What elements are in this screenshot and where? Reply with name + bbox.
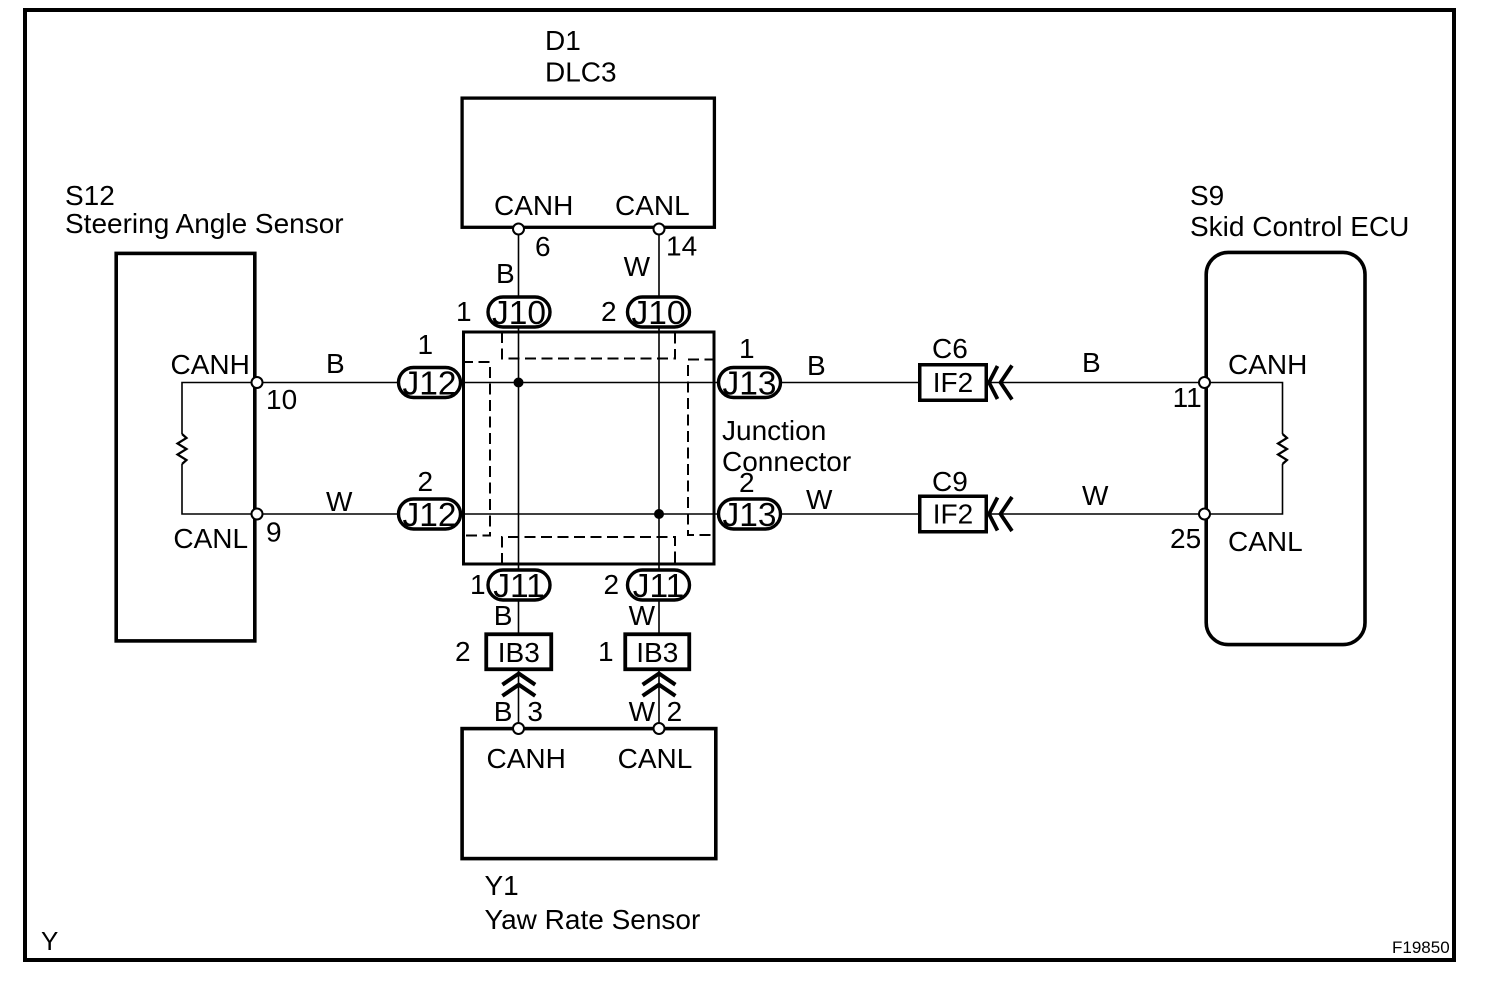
connector IB3 pin 1 (right) [598,634,689,669]
connector C9 IF2 [920,466,987,532]
wire CANH (B): S12 pin 10 to S9 pin 11 [257,382,1205,384]
node pin 2 (Y1 CANL) [618,696,693,774]
svg-text:CANL: CANL [618,743,693,774]
svg-text:25: 25 [1170,523,1201,554]
svg-text:Steering Angle Sensor: Steering Angle Sensor [65,208,344,239]
svg-text:2: 2 [455,636,471,667]
svg-text:IB3: IB3 [636,637,678,668]
connector J13 pin 1 [719,333,781,402]
svg-text:J13: J13 [722,497,776,534]
svg-text:CANL: CANL [1228,526,1303,557]
svg-text:IB3: IB3 [498,637,540,668]
svg-text:B: B [494,600,513,631]
component S12 Steering Angle Sensor [65,180,344,641]
svg-text:1: 1 [456,296,472,327]
connector mating chevrons (IB3 right) [643,674,676,696]
svg-text:B: B [1082,347,1101,378]
svg-text:1: 1 [418,329,434,360]
connector mating chevrons (C6) [989,366,1012,400]
resistor (S12 internal termination) [178,383,258,515]
svg-text:F19850: F19850 [1392,938,1450,957]
connector IB3 pin 2 (left) [455,634,551,669]
svg-text:J10: J10 [492,295,546,332]
svg-text:1: 1 [739,333,755,364]
svg-text:14: 14 [666,231,697,262]
svg-text:J12: J12 [402,365,456,402]
svg-text:3: 3 [527,696,543,727]
svg-text:Junction: Junction [722,415,826,446]
svg-text:2: 2 [667,696,683,727]
svg-text:2: 2 [601,296,617,327]
svg-text:Y1: Y1 [485,870,519,901]
node pin 3 (Y1 CANH) [487,696,566,774]
node pin 25 (S9 CANL) [1170,509,1303,558]
connector mating chevrons (C9) [989,497,1012,531]
wire B: D1 CANH pin 6 down to Y1 pin 3 [518,229,520,729]
svg-text:CANH: CANH [487,743,566,774]
connector J10 pin 2 [601,295,690,332]
connector J12 pin 2 [399,466,461,534]
svg-text:W: W [1082,480,1109,511]
svg-text:2: 2 [604,569,620,600]
svg-text:CANL: CANL [615,190,690,221]
svg-text:W: W [629,696,656,727]
svg-text:J13: J13 [722,365,776,402]
svg-text:B: B [326,348,345,379]
node pin 11 (S9 CANH) [1173,349,1308,413]
svg-text:IF2: IF2 [933,367,973,398]
svg-text:2: 2 [739,467,755,498]
svg-text:S9: S9 [1190,180,1224,211]
resistor (S9 internal termination) [1205,383,1288,515]
svg-text:Skid Control ECU: Skid Control ECU [1190,211,1409,242]
svg-text:Yaw Rate Sensor: Yaw Rate Sensor [485,904,701,935]
svg-text:9: 9 [266,517,282,548]
component Y1 Yaw Rate Sensor [462,729,716,935]
wire CANL (W): S12 pin 9 to S9 pin 25 [257,513,1205,515]
svg-text:W: W [806,484,833,515]
node pin 6 (D1 CANH) [494,190,573,262]
component D1 DLC3 [462,25,714,227]
svg-text:CANH: CANH [171,349,250,380]
connector J11 pin 1 [470,568,550,605]
svg-text:CANH: CANH [1228,349,1307,380]
svg-text:W: W [629,600,656,631]
svg-text:S12: S12 [65,180,115,211]
connector J11 pin 2 [604,568,690,605]
svg-text:CANL: CANL [173,523,248,554]
svg-text:B: B [494,696,513,727]
svg-text:6: 6 [535,231,551,262]
svg-text:W: W [624,251,651,282]
svg-text:J10: J10 [631,295,685,332]
svg-text:2: 2 [418,466,434,497]
svg-text:10: 10 [266,384,297,415]
connector C6 IF2 [920,333,987,400]
svg-text:CANH: CANH [494,190,573,221]
svg-text:IF2: IF2 [933,499,973,530]
node pin 14 (D1 CANL) [615,190,697,262]
svg-text:1: 1 [598,636,614,667]
svg-text:Y: Y [41,926,58,956]
label Junction Connector [722,415,851,477]
wire W: D1 CANL pin 14 down to Y1 pin 2 [658,229,660,729]
junction dot (W/CANL) [654,509,664,519]
svg-text:11: 11 [1173,382,1202,413]
node pin 9 (S12 CANL) [173,509,281,555]
svg-text:1: 1 [470,569,486,600]
connector mating chevrons (IB3 left) [502,674,535,696]
svg-text:DLC3: DLC3 [545,57,617,88]
connector J12 pin 1 [399,329,461,402]
svg-text:B: B [496,258,515,289]
svg-text:C9: C9 [932,466,968,497]
svg-text:D1: D1 [545,25,581,56]
junction connector box [464,332,715,564]
component S9 Skid Control ECU [1190,180,1409,645]
svg-text:B: B [807,350,826,381]
connector J10 pin 1 [456,295,550,332]
svg-text:J12: J12 [402,497,456,534]
junction dot (B/CANH) [514,378,524,388]
svg-text:C6: C6 [932,333,968,364]
node pin 10 (S12 CANH) [171,349,298,415]
connector J13 pin 2 [719,467,781,534]
svg-text:W: W [326,486,353,517]
junction connector internal bus (dashed) [462,332,716,564]
